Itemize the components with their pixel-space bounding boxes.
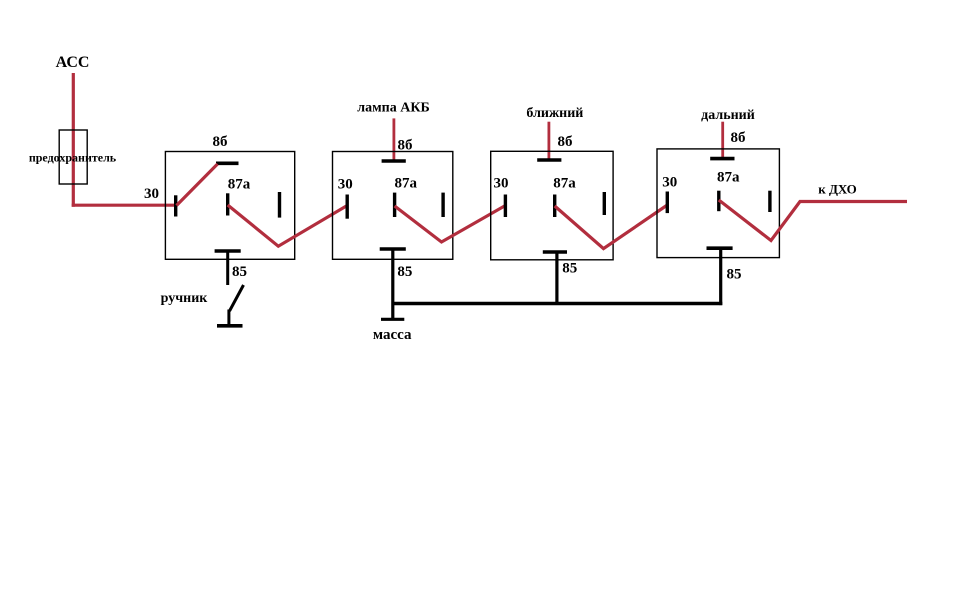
relay K4 pin 87 [768, 191, 771, 212]
relay K2 pin 30 [346, 195, 349, 219]
svg-text:85: 85 [727, 266, 742, 282]
svg-text:85: 85 [232, 264, 247, 280]
svg-text:87а: 87а [395, 176, 418, 192]
svg-text:30: 30 [144, 186, 159, 202]
relay K4 pin 85 [707, 246, 733, 250]
svg-text:8б: 8б [398, 137, 413, 153]
relay K4 pin 30 [666, 192, 669, 214]
svg-text:к ДХО: к ДХО [818, 181, 857, 196]
wire fuse to relay K1 pin 30 [72, 204, 177, 207]
switch ручник blade [230, 285, 244, 311]
wire K1 pin85 stem [226, 251, 229, 285]
wire ground bus [392, 302, 723, 305]
switch ручник lower stem [227, 310, 230, 327]
svg-text:85: 85 [562, 261, 577, 277]
wire K4 pin85 stem to ground bus [719, 248, 722, 305]
svg-text:87а: 87а [717, 169, 740, 185]
svg-text:лампа АКБ: лампа АКБ [357, 101, 429, 116]
relay K1 pin 87a [226, 193, 229, 215]
relay K2 pin 85 [380, 247, 406, 251]
relay K3 pin 30 [504, 195, 507, 218]
relay K1 pin 85 [215, 249, 241, 253]
svg-text:предохранитель: предохранитель [29, 151, 117, 165]
svg-text:ручник: ручник [161, 291, 209, 306]
wire K3 pin85 stem to ground bus [555, 252, 558, 305]
wire K4 87a to ДХО output [719, 200, 907, 241]
relay K4 box [657, 149, 779, 258]
svg-text:ближний: ближний [526, 106, 583, 121]
relay K4 pin 86 [710, 157, 734, 161]
svg-text:30: 30 [662, 174, 677, 190]
switch ручник bottom terminal [217, 324, 243, 328]
relay K3 box [491, 151, 613, 259]
relay K3 pin 85 [543, 250, 567, 254]
wire K2 pin85 stem to ground [391, 249, 394, 319]
wire K3 87a to K4 30 [555, 205, 668, 249]
wire ACC vertical feed [72, 73, 75, 207]
wire ближний stem [548, 122, 551, 160]
wire лампа АКБ stem [392, 118, 395, 160]
wire K1 87a to K2 30 [228, 205, 348, 246]
wire дальний stem [721, 122, 724, 158]
svg-text:8б: 8б [731, 130, 746, 146]
svg-text:85: 85 [397, 264, 412, 280]
relay K3 pin 87a [553, 195, 556, 218]
relay K3 pin 87 [603, 192, 606, 215]
svg-text:87а: 87а [228, 176, 251, 192]
relay K1 pin 30 [174, 195, 177, 216]
relay K3 pin 86 [537, 158, 561, 162]
relay K1 pin 87 [278, 192, 281, 218]
svg-text:30: 30 [494, 176, 509, 192]
svg-text:дальний: дальний [701, 108, 755, 123]
wire K1 pin30 to pin86 coil jumper [177, 164, 218, 206]
svg-text:8б: 8б [213, 134, 228, 150]
relay K2 pin 87 [441, 193, 444, 217]
relay K1 box [165, 152, 294, 260]
relay K2 box [333, 152, 453, 260]
svg-text:8б: 8б [558, 134, 573, 150]
svg-text:АСС: АСС [56, 54, 90, 71]
relay K2 pin 87a [393, 193, 396, 217]
fuse предохранитель [59, 130, 87, 184]
relay K1 pin 86 [216, 162, 239, 166]
relay K4 pin 87a [717, 191, 720, 212]
svg-text:30: 30 [338, 177, 353, 193]
svg-text:87а: 87а [553, 176, 576, 192]
wire K2 87a to K3 30 [395, 206, 506, 243]
svg-text:масса: масса [373, 327, 412, 343]
ground масса terminal bar [381, 318, 404, 321]
relay K2 pin 86 [382, 159, 406, 163]
